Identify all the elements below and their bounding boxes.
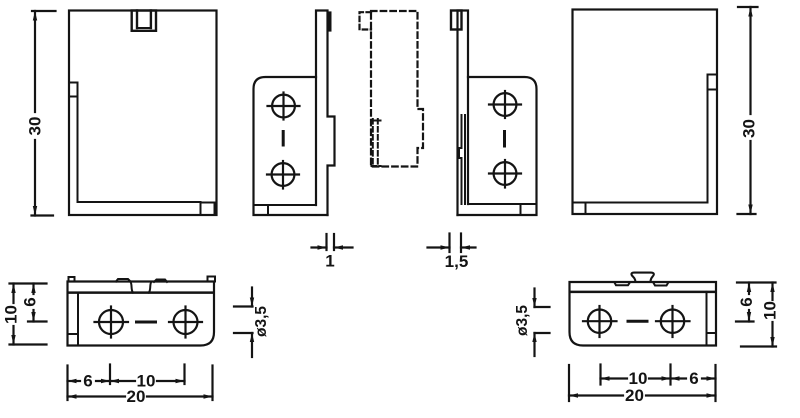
dimension 6 left of top view	[28, 284, 47, 322]
top view right: clip dip marks below top edge	[615, 283, 669, 286]
hidden view (dashed) body	[371, 11, 423, 167]
front view right: inner L bend line	[573, 90, 708, 203]
dimension dia 3,5 left of right top view	[532, 289, 549, 357]
dimension 1,5 (leg thickness)	[428, 234, 476, 253]
svg-text:6: 6	[737, 297, 756, 306]
front view left: top clip slot	[132, 11, 156, 31]
top view left: clip tab curves between wall lines	[131, 283, 151, 293]
side view right: clip leg inner double lines with detent	[459, 115, 465, 204]
top view left: outer outline rounded bottom-right	[68, 282, 215, 346]
top view left: clip bumps on top edge	[116, 279, 167, 282]
svg-text:20: 20	[625, 386, 644, 405]
side view right: flange inner bottom line	[468, 204, 537, 215]
dimension 30 left	[32, 11, 56, 216]
front view right: side notch box	[708, 75, 718, 90]
top view left: left hole	[95, 307, 129, 338]
hidden view (dashed) top tab	[360, 12, 372, 29]
front view left: outer body	[69, 11, 217, 216]
dimension 20 bottom left	[68, 394, 213, 398]
top view right: right hole	[656, 306, 690, 337]
dimension 30 right	[738, 7, 758, 214]
svg-text:30: 30	[26, 117, 45, 136]
dimension 20 bottom right	[569, 393, 716, 397]
front view right: outer body	[573, 10, 718, 215]
top view right: right leg inner line and box	[707, 292, 717, 346]
front view left: bottom right tab box	[201, 203, 215, 216]
dimension 6 bottom left	[68, 379, 111, 383]
top view left: centerline dash between holes	[137, 321, 156, 324]
front view right: bottom left tab box	[585, 203, 587, 215]
dimension 10 bottom left	[110, 379, 185, 383]
side view right: clip tab box at top	[451, 11, 462, 30]
svg-text:10: 10	[2, 305, 21, 324]
top view right: centerline dash between holes	[628, 320, 647, 323]
top view left: right hole	[169, 307, 202, 338]
svg-text:ø3,5: ø3,5	[253, 306, 270, 337]
dimension 10 bottom right	[601, 376, 671, 380]
dimension 6 bottom right	[671, 376, 716, 380]
bottom dimensions of left top view: extension lines	[68, 365, 213, 401]
side view right: upper hole	[489, 91, 521, 118]
dimension dia 3,5 right of left top view	[234, 288, 254, 358]
top view right: clip tab above top edge	[631, 273, 653, 282]
svg-text:6: 6	[21, 297, 40, 306]
dimension 10 left of top view	[10, 284, 47, 345]
top view left: left leg inner line and box	[68, 293, 79, 346]
side view left: clip tab mark at top	[328, 12, 331, 31]
dimension 6 right of top view	[736, 283, 776, 322]
side view left: lower hole	[267, 161, 299, 189]
side view right: lower hole	[489, 160, 521, 188]
side view left: flange outline rounded top-left	[254, 77, 328, 215]
side view right: flange outline rounded top-right	[458, 77, 537, 215]
svg-text:6: 6	[83, 372, 92, 391]
side view left: leg strip outline with detent bump	[316, 11, 335, 216]
svg-text:ø3,5: ø3,5	[514, 305, 531, 336]
side view left: centerline dash between holes	[282, 132, 285, 146]
top view left: second wall line	[69, 291, 214, 294]
bottom dimensions of right top view: extension lines	[569, 365, 716, 402]
side view right: leg strip outline	[458, 11, 469, 216]
dimension 10 right of top view	[741, 283, 776, 347]
side view left: upper hole	[268, 93, 300, 120]
top view left: edge hooks	[69, 277, 216, 282]
top view right: outer outline rounded bottom-left	[570, 282, 717, 346]
side view right: centerline dash between holes	[503, 132, 506, 147]
hidden view (dashed) clip leg detail	[372, 119, 381, 167]
side view left: flange inner bottom line	[254, 205, 317, 215]
svg-text:1,5: 1,5	[445, 252, 469, 271]
front view left: inner L bend line	[78, 97, 201, 203]
top view right: second wall line	[571, 291, 716, 294]
front view left: side notch box	[69, 83, 78, 97]
svg-text:20: 20	[127, 387, 146, 406]
dimension 1 (leg thickness)	[312, 234, 353, 250]
svg-text:6: 6	[689, 369, 698, 388]
svg-text:1: 1	[325, 252, 334, 271]
svg-text:30: 30	[740, 119, 759, 138]
top view right: left hole	[583, 306, 617, 337]
svg-text:10: 10	[761, 301, 780, 320]
